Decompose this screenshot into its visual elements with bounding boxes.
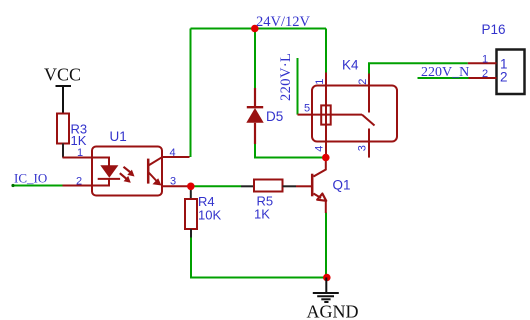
optocoupler U1	[63, 129, 190, 196]
resistor R5	[241, 180, 296, 222]
wire bottom rail R4 to AGND	[191, 237, 327, 278]
svg-text:5: 5	[304, 103, 310, 115]
svg-text:3: 3	[357, 145, 369, 151]
svg-text:Q1: Q1	[333, 178, 351, 193]
wire top rail 24V/12V	[191, 28, 327, 30]
transistor Q1	[296, 159, 351, 214]
light arrow 2	[120, 173, 127, 179]
svg-text:2: 2	[76, 176, 82, 188]
svg-text:220V·L: 220V·L	[278, 53, 294, 101]
phototransistor collector	[148, 157, 162, 165]
svg-text:4: 4	[170, 147, 176, 159]
svg-text:10K: 10K	[198, 208, 221, 223]
svg-text:VCC: VCC	[44, 65, 81, 85]
svg-text:24V/12V: 24V/12V	[256, 14, 311, 30]
resistor R3	[57, 114, 87, 158]
wire D5 top branch	[254, 29, 256, 90]
pin 3	[368, 129, 370, 158]
node junction D5 / relay pin4 / Q1 collector	[322, 154, 330, 162]
node junction AGND	[323, 274, 331, 282]
coil	[321, 105, 331, 124]
base lead	[296, 185, 311, 187]
LED triangle	[100, 165, 118, 178]
wire 220V_N stub to P16 pin2	[418, 77, 469, 79]
pin 4 lead	[162, 156, 190, 158]
svg-text:1: 1	[314, 79, 326, 85]
svg-text:K4: K4	[342, 58, 359, 73]
svg-text:4: 4	[314, 146, 326, 152]
wire D5 bottom to node collector	[255, 144, 326, 158]
pin 1 lead	[63, 157, 93, 159]
svg-text:220V_N: 220V_N	[421, 65, 469, 80]
svg-text:2: 2	[482, 68, 488, 80]
svg-text:IC_IO: IC_IO	[14, 171, 47, 186]
resistor R4	[185, 186, 221, 237]
pin 3 lead	[162, 185, 189, 187]
wire relay K4 pin1 riser	[325, 29, 327, 74]
phototransistor emitter	[148, 172, 158, 183]
emitter	[314, 194, 322, 199]
svg-text:1: 1	[482, 54, 488, 66]
svg-text:1K: 1K	[254, 207, 270, 222]
pin 1 stub	[468, 62, 497, 64]
wire 220V-L stub to relay pin5	[297, 58, 299, 115]
svg-text:AGND: AGND	[307, 302, 359, 320]
ground AGND	[313, 278, 339, 303]
wire Q1 emitter to AGND	[325, 213, 327, 278]
svg-text:P16: P16	[482, 22, 506, 37]
phototransistor bar	[147, 159, 150, 184]
relay K4	[298, 58, 398, 158]
power VCC	[44, 65, 81, 115]
LED cathode path	[92, 179, 109, 186]
contact blade	[362, 115, 375, 126]
collector	[314, 159, 326, 177]
svg-text:1: 1	[77, 147, 83, 159]
pin 2	[368, 74, 370, 113]
pin 5 line through coil	[298, 114, 363, 116]
connector P16	[468, 22, 525, 94]
svg-text:3: 3	[170, 176, 176, 188]
LED cathode bar	[98, 178, 120, 180]
svg-text:2: 2	[500, 70, 508, 85]
node junction 24V rail	[251, 25, 259, 33]
svg-text:2: 2	[357, 79, 369, 85]
wire relay K4 pin2 to P16 pin1	[369, 63, 468, 74]
LED anode path	[92, 158, 109, 166]
light arrow 1	[124, 167, 131, 172]
node junction U1 pin3 / R4 / R5	[187, 183, 195, 191]
wire node3 to R5	[192, 185, 241, 187]
wire U1 pin4 riser to top rail	[190, 29, 192, 158]
pin 2 stub	[469, 77, 497, 79]
pin 1 / coil axis	[325, 73, 327, 158]
svg-text:U1: U1	[110, 129, 127, 144]
diode D5	[246, 88, 283, 144]
pin 2 lead	[63, 185, 93, 187]
wire IC_IO to U1 pin2	[11, 184, 62, 187]
svg-text:1K: 1K	[71, 133, 87, 148]
svg-text:D5: D5	[266, 109, 283, 124]
